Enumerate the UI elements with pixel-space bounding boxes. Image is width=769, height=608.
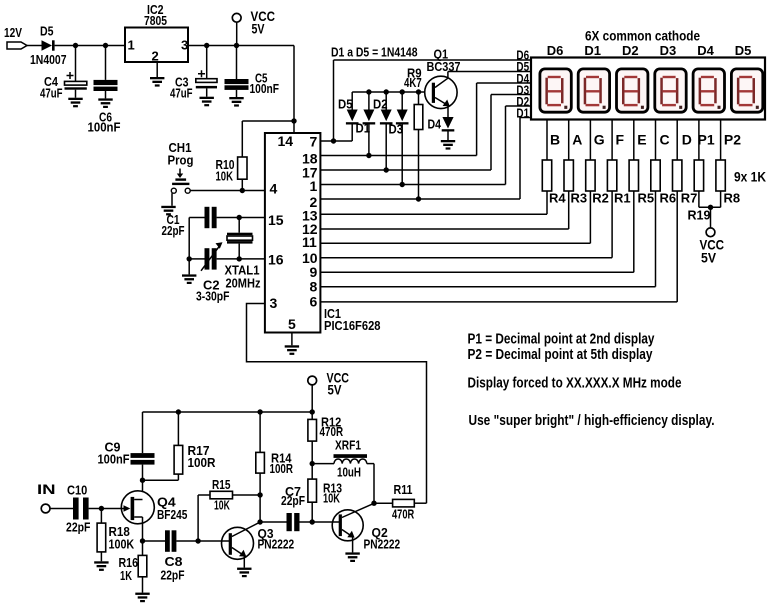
svg-text:22pF: 22pF [162, 223, 185, 238]
svg-text:20MHz: 20MHz [226, 276, 261, 291]
svg-text:IN: IN [37, 481, 56, 497]
svg-text:10K: 10K [214, 498, 230, 513]
svg-text:3: 3 [270, 295, 278, 311]
svg-text:47uF: 47uF [40, 86, 63, 101]
svg-text:1: 1 [310, 178, 318, 194]
svg-text:22pF: 22pF [161, 568, 185, 583]
svg-text:100nF: 100nF [250, 81, 280, 96]
svg-text:PN2222: PN2222 [258, 537, 295, 552]
svg-text:5V: 5V [252, 21, 266, 37]
svg-text:R1: R1 [614, 191, 631, 206]
svg-text:15: 15 [268, 212, 284, 228]
svg-text:Prog: Prog [168, 153, 194, 168]
svg-text:1: 1 [128, 38, 135, 53]
svg-text:47uF: 47uF [170, 85, 193, 100]
svg-text:G: G [594, 132, 605, 148]
svg-text:1K: 1K [120, 568, 132, 583]
svg-text:PIC16F628: PIC16F628 [324, 318, 381, 333]
svg-text:P1 = Decimal point at 2nd disp: P1 = Decimal point at 2nd display [468, 332, 655, 348]
svg-text:D5: D5 [40, 24, 54, 39]
svg-text:6X common cathode: 6X common cathode [585, 28, 700, 44]
svg-text:D2: D2 [622, 43, 639, 58]
svg-text:R8: R8 [724, 191, 741, 206]
svg-text:P1: P1 [698, 132, 715, 148]
svg-text:3: 3 [181, 38, 188, 53]
svg-text:D6: D6 [547, 43, 564, 58]
svg-text:D5: D5 [338, 97, 353, 111]
svg-text:11: 11 [302, 234, 317, 250]
svg-text:7805: 7805 [144, 13, 167, 28]
svg-text:BF245: BF245 [157, 507, 187, 522]
svg-text:R6: R6 [660, 191, 677, 206]
svg-text:R3: R3 [571, 191, 588, 206]
svg-text:R4: R4 [549, 191, 566, 206]
svg-text:5V: 5V [701, 249, 717, 265]
svg-text:E: E [637, 132, 646, 148]
svg-text:A: A [572, 132, 582, 148]
svg-text:1N4007: 1N4007 [30, 52, 67, 67]
svg-text:P2: P2 [724, 132, 741, 148]
svg-text:D3: D3 [389, 122, 404, 136]
svg-text:5: 5 [288, 316, 296, 332]
svg-text:D1: D1 [356, 122, 371, 136]
svg-text:100nF: 100nF [88, 120, 121, 135]
svg-text:22pF: 22pF [281, 493, 305, 508]
svg-text:R2: R2 [592, 191, 609, 206]
svg-text:R19: R19 [688, 208, 711, 223]
svg-text:D3: D3 [660, 43, 677, 58]
svg-text:R7: R7 [681, 191, 698, 206]
svg-text:14: 14 [278, 133, 294, 149]
svg-text:R15: R15 [212, 477, 231, 492]
svg-text:4K7: 4K7 [404, 75, 422, 90]
svg-text:BC337: BC337 [427, 59, 461, 74]
svg-text:XRF1: XRF1 [335, 438, 361, 453]
svg-text:100K: 100K [109, 537, 135, 552]
svg-text:D5: D5 [735, 43, 752, 58]
svg-text:D1: D1 [516, 107, 529, 121]
svg-text:8: 8 [310, 279, 318, 295]
svg-text:PN2222: PN2222 [364, 537, 401, 552]
svg-text:10uH: 10uH [337, 465, 361, 480]
svg-text:C10: C10 [67, 483, 87, 498]
svg-text:R11: R11 [394, 482, 413, 497]
svg-text:D1 a D5 = 1N4148: D1 a D5 = 1N4148 [331, 45, 418, 60]
svg-text:5V: 5V [328, 382, 343, 398]
svg-text:3-30pF: 3-30pF [196, 289, 230, 304]
svg-text:100R: 100R [270, 461, 294, 476]
svg-text:D: D [682, 132, 692, 148]
svg-text:D4: D4 [428, 116, 442, 131]
svg-text:12V: 12V [4, 25, 22, 40]
svg-text:470R: 470R [392, 507, 415, 522]
svg-text:22pF: 22pF [66, 520, 90, 535]
svg-text:10K: 10K [216, 170, 234, 184]
svg-text:D2: D2 [373, 97, 388, 111]
svg-text:16: 16 [268, 252, 284, 268]
svg-text:B: B [550, 132, 560, 148]
svg-text:Use "super bright" / high-effi: Use "super bright" / high-efficiency dis… [469, 413, 715, 429]
svg-text:9x 1K: 9x 1K [734, 169, 766, 185]
svg-text:D1: D1 [584, 43, 601, 58]
svg-text:10K: 10K [323, 491, 340, 506]
svg-text:2: 2 [152, 49, 159, 64]
svg-text:100R: 100R [188, 455, 217, 470]
svg-text:F: F [616, 132, 625, 148]
svg-text:Display forced to XX.XXX.X MHz: Display forced to XX.XXX.X MHz mode [468, 376, 682, 392]
svg-text:4: 4 [270, 181, 278, 197]
svg-text:6: 6 [310, 294, 318, 310]
svg-text:R5: R5 [638, 191, 655, 206]
svg-text:100nF: 100nF [98, 452, 130, 467]
svg-text:7: 7 [310, 134, 318, 150]
svg-text:C: C [660, 132, 670, 148]
svg-text:D4: D4 [697, 43, 714, 58]
svg-text:P2 = Decimal point at 5th disp: P2 = Decimal point at 5th display [468, 347, 653, 363]
